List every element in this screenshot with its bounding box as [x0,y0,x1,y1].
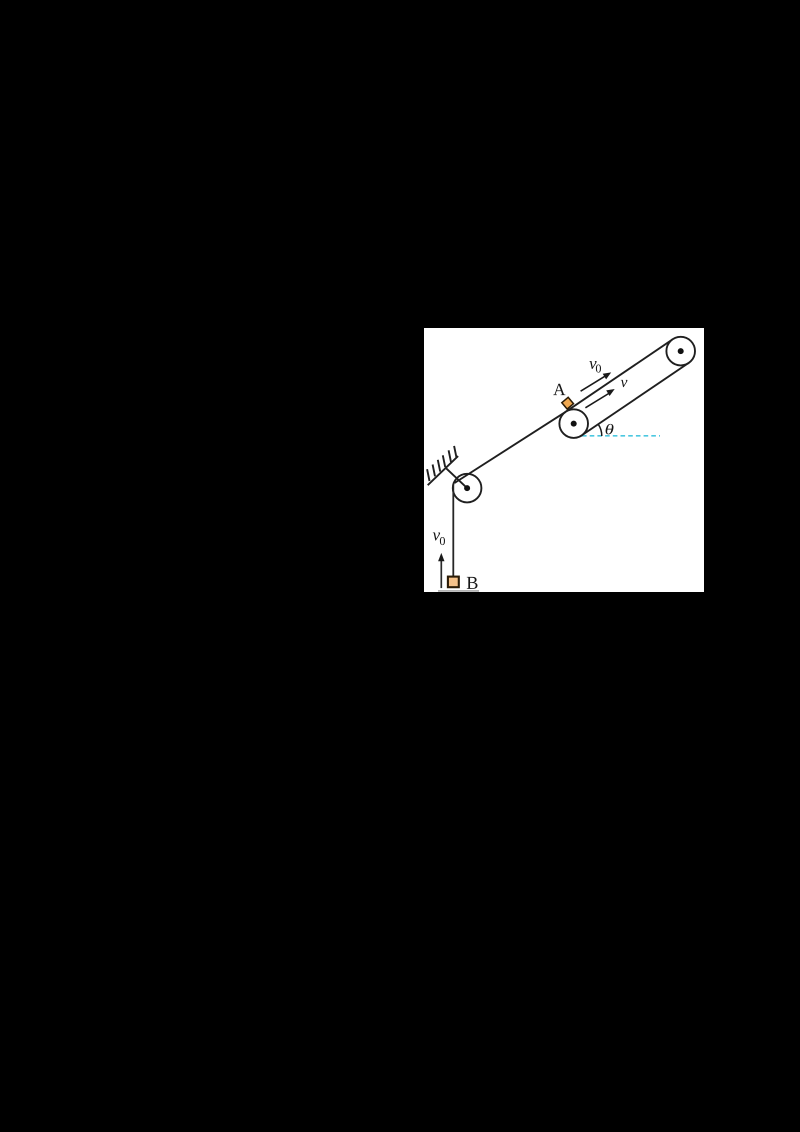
belt top line [565,339,672,412]
string from block A to wall pulley [454,411,565,482]
block B [447,576,458,587]
upper pulley center dot [677,348,683,354]
hatched wall line [427,456,457,485]
lower pulley circle [559,409,588,438]
v0 arrow on incline [580,372,611,391]
v arrow on incline [585,389,614,408]
dashed horizontal reference line [582,434,660,436]
angle arc theta [598,424,602,436]
label A [553,383,565,394]
belt bottom line [581,363,688,436]
label v on incline [620,380,627,387]
strut from wall to pulley axle [446,468,467,488]
wall pulley circle [452,473,481,502]
wall hatch marks [427,446,456,481]
v0 arrow near B [438,553,444,588]
upper pulley circle [666,336,695,365]
label theta [605,424,613,435]
label v0 on incline [589,361,596,369]
ground shadow line under block B [438,590,479,592]
wall pulley center dot [464,485,470,491]
label v0 near B [432,532,439,540]
vertical string to block B [452,484,454,576]
lower pulley center dot [570,420,576,426]
block A [561,397,573,409]
label B [466,577,477,589]
